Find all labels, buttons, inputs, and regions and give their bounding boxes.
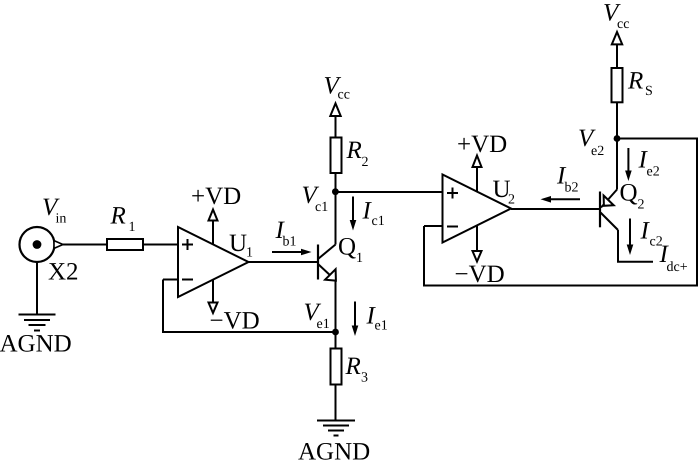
wire Ve2 node to Q2 emitter — [616, 139, 618, 190]
svg-text:cc: cc — [338, 88, 350, 103]
svg-text:2: 2 — [362, 155, 369, 170]
svg-text:dc+: dc+ — [667, 260, 688, 275]
wire input to R1 — [62, 244, 107, 246]
svg-text:X2: X2 — [48, 259, 79, 286]
wire U2 output to Q2 base — [511, 208, 600, 210]
svg-text:in: in — [56, 212, 67, 227]
svg-text:R: R — [627, 68, 643, 95]
power -VD (U2) — [476, 225, 478, 251]
node Ve2 — [614, 135, 621, 142]
svg-text:AGND: AGND — [298, 439, 370, 466]
svg-text:R: R — [110, 203, 126, 230]
svg-text:e1: e1 — [375, 319, 388, 334]
svg-text:2: 2 — [508, 193, 515, 208]
svg-text:AGND: AGND — [0, 331, 72, 358]
svg-text:cc: cc — [617, 17, 629, 32]
current arrow Ib2 — [541, 196, 581, 203]
svg-text:e1: e1 — [317, 317, 330, 332]
node Ve1 — [332, 329, 339, 336]
wire feedback U1 — [163, 280, 336, 333]
svg-text:1: 1 — [129, 220, 136, 235]
svg-text:b1: b1 — [283, 235, 297, 250]
wire Q2 collector to Idc+ — [618, 230, 653, 262]
ground AGND (R3) — [317, 420, 355, 422]
wire connector to ground — [36, 262, 38, 314]
op-amp U2 — [443, 175, 512, 243]
svg-text:+VD: +VD — [191, 183, 241, 210]
svg-text:b2: b2 — [565, 180, 579, 195]
svg-text:−VD: −VD — [210, 308, 260, 335]
wire Q1 collector to node Vc1 — [335, 192, 337, 245]
svg-text:e2: e2 — [647, 165, 660, 180]
svg-text:1: 1 — [356, 251, 363, 266]
svg-text:1: 1 — [246, 246, 253, 261]
power +VD (U1) — [212, 221, 214, 245]
resistor R3 — [335, 332, 337, 349]
wire U1 minus input — [163, 279, 178, 281]
svg-text:e2: e2 — [591, 144, 604, 159]
svg-text:R: R — [345, 353, 361, 380]
wire R1 to U1 — [143, 244, 178, 246]
op-amp U1 — [178, 227, 249, 297]
current arrow Ie1 — [352, 302, 359, 337]
wire U1 output to Q1 base — [249, 261, 319, 263]
connector X2 — [20, 227, 55, 262]
current arrow Ic2 — [627, 219, 634, 256]
svg-text:S: S — [645, 84, 653, 99]
current arrow Ie2 — [625, 148, 632, 181]
resistor R1 — [107, 239, 143, 250]
transistor Q1 — [317, 245, 319, 280]
svg-text:R: R — [346, 137, 362, 164]
svg-text:3: 3 — [361, 371, 368, 386]
svg-text:Q: Q — [620, 180, 638, 207]
svg-text:c1: c1 — [372, 214, 385, 229]
power Vcc (RS) — [612, 32, 622, 44]
wire node Vc1 to U2 — [336, 191, 443, 193]
svg-text:−VD: −VD — [455, 261, 505, 288]
svg-text:Q: Q — [338, 234, 356, 261]
svg-text:U: U — [229, 230, 247, 257]
node Vc1 — [332, 188, 339, 195]
ground AGND (input) — [19, 314, 56, 316]
svg-text:2: 2 — [638, 198, 645, 213]
svg-text:c1: c1 — [315, 200, 328, 215]
power -VD (U1) — [212, 280, 214, 303]
current arrow Ic1 — [350, 197, 357, 231]
svg-text:+VD: +VD — [457, 131, 507, 158]
current arrow Ib1 — [272, 249, 312, 256]
resistor R2 — [335, 173, 337, 192]
wire Q1 emitter to node Ve1 — [335, 280, 337, 332]
transistor Q2 — [599, 192, 601, 228]
resistor RS — [616, 102, 618, 138]
wire feedback U2 — [424, 139, 697, 286]
power +VD (U2) — [476, 167, 478, 192]
wire U2 minus input — [424, 225, 443, 227]
power Vcc (R2) — [330, 103, 340, 116]
